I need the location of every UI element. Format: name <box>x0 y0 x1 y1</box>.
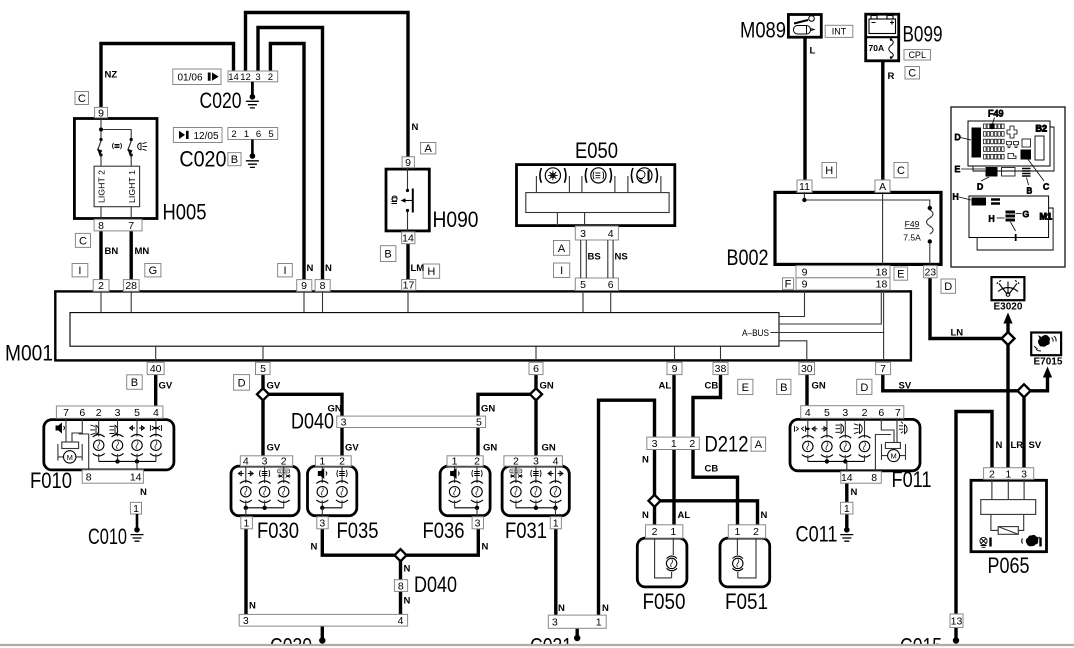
svg-text:2: 2 <box>753 526 759 538</box>
svg-text:LN: LN <box>951 328 964 339</box>
svg-text:1: 1 <box>844 503 850 515</box>
node letter G <box>145 264 161 278</box>
pin 13 P065 to C015 <box>950 614 963 628</box>
F035 lamps <box>321 466 323 483</box>
svg-text:5: 5 <box>134 407 140 419</box>
B099 fuse symbol <box>889 40 894 59</box>
pins 2 1 F050 <box>646 525 683 538</box>
key switch M089 <box>788 15 821 38</box>
svg-text:C020: C020 <box>179 147 226 172</box>
pin A B002 <box>875 180 890 193</box>
svg-text:5: 5 <box>268 129 273 140</box>
junction diamond node N lamps <box>395 549 407 561</box>
wire NZ H005.9 to C020.14 <box>101 44 234 109</box>
svg-text:D: D <box>977 182 983 192</box>
svg-text:H: H <box>825 165 833 177</box>
svg-text:1: 1 <box>133 503 139 515</box>
node letter A H090 <box>421 143 436 156</box>
wire LR node to P065.1 <box>1006 345 1009 469</box>
bottom pane divider <box>0 646 1074 648</box>
pin 6 M001 <box>529 362 543 375</box>
wire GN node to F031.3 <box>534 400 537 457</box>
pin 9 M001 bottom <box>667 362 682 375</box>
wire N F011.14 to C011 <box>845 483 848 503</box>
junction diamond node GV <box>257 388 269 400</box>
inset highlighted fuse F49 <box>991 124 994 129</box>
node letter E B002 <box>894 267 908 281</box>
svg-text:6: 6 <box>878 407 884 419</box>
svg-text:6: 6 <box>79 407 85 419</box>
node letter I E050 <box>554 263 570 278</box>
svg-text:7: 7 <box>880 363 886 375</box>
svg-text:2: 2 <box>281 456 287 468</box>
svg-text:4: 4 <box>243 456 249 468</box>
node letter C H005 lower <box>75 233 90 247</box>
svg-text:3: 3 <box>652 438 658 450</box>
svg-text:3: 3 <box>262 456 268 468</box>
E050 stalk unit internals <box>545 168 560 183</box>
svg-text:A–BUS: A–BUS <box>742 328 769 338</box>
node letter B M001 40 <box>127 375 143 390</box>
svg-text:6: 6 <box>608 279 614 291</box>
svg-text:12: 12 <box>240 72 251 83</box>
svg-text:3: 3 <box>552 617 558 629</box>
svg-text:1: 1 <box>244 129 249 140</box>
lamp unit F035 <box>308 466 357 516</box>
svg-text:N: N <box>412 122 419 133</box>
svg-text:6: 6 <box>256 129 261 140</box>
svg-text:5: 5 <box>260 363 266 375</box>
svg-text:14: 14 <box>402 233 414 245</box>
svg-text:I: I <box>78 265 81 277</box>
svg-text:3: 3 <box>115 407 121 419</box>
pins 1 2 F035 <box>315 456 351 468</box>
connector D212 pins 3 1 2 <box>647 437 700 450</box>
wire AL M001.9 to D212.1 to F050.1 <box>672 375 675 527</box>
svg-text:P065: P065 <box>988 553 1030 578</box>
svg-text:M001: M001 <box>5 341 53 366</box>
pin 38 M001 <box>713 362 728 375</box>
svg-text:F49: F49 <box>905 219 920 229</box>
svg-text:F036: F036 <box>423 518 465 543</box>
wire MN H005.7 to M001.28 <box>129 231 132 280</box>
pins 2 3 4 F031 <box>504 456 563 468</box>
svg-text:3: 3 <box>341 417 347 429</box>
svg-text:E: E <box>955 164 961 174</box>
svg-text:INT: INT <box>832 27 847 37</box>
svg-text:N: N <box>325 263 332 274</box>
wire GV M001.40 to F010.4 <box>154 375 157 408</box>
H005 switch 2 (LIGHT 1) <box>130 138 133 141</box>
connector C030 pins 3 4 <box>239 614 407 627</box>
pin 5 M001 <box>256 362 271 375</box>
F031 lamps <box>515 466 517 483</box>
H090 push switch <box>407 168 409 232</box>
svg-text:9: 9 <box>98 107 104 119</box>
ground C010 <box>136 514 139 530</box>
svg-text:17: 17 <box>403 280 415 292</box>
node letter A D212 <box>751 437 766 451</box>
svg-text:MN: MN <box>135 246 150 257</box>
wire SV node to E7015 <box>1030 378 1048 391</box>
pins 1 2 F051 <box>728 525 765 538</box>
svg-text:8: 8 <box>86 471 92 483</box>
horn E7015 icon box <box>1031 333 1061 356</box>
svg-text:2: 2 <box>989 468 995 480</box>
svg-text:GN: GN <box>328 404 342 415</box>
wire GN node to D040.3 <box>269 394 342 417</box>
ground C011 <box>845 528 848 531</box>
svg-text:SV: SV <box>899 381 912 392</box>
svg-text:C020: C020 <box>200 88 242 113</box>
svg-text:E050: E050 <box>575 138 618 163</box>
svg-text:SV: SV <box>1029 440 1042 451</box>
svg-text:7: 7 <box>63 407 69 419</box>
svg-text:GN: GN <box>812 381 826 392</box>
svg-text:F030: F030 <box>257 518 299 543</box>
pin 1 F030 <box>241 517 253 530</box>
wire N node to F050.2 <box>653 506 656 526</box>
pins 14 8 F011 <box>841 471 882 484</box>
svg-text:3: 3 <box>243 615 249 627</box>
node letter B H090 <box>380 246 396 262</box>
svg-text:M089: M089 <box>740 18 786 43</box>
connector D040 pins 3 5 <box>337 416 486 429</box>
svg-text:1: 1 <box>734 526 740 538</box>
battery B099 <box>866 14 899 61</box>
M001 bottom pin stubs <box>155 346 157 360</box>
pins 4 3 2 F030 <box>240 456 292 468</box>
wire N F036.3 to node <box>406 529 478 556</box>
svg-text:N: N <box>761 510 768 521</box>
svg-text:F: F <box>785 279 792 291</box>
svg-text:AL: AL <box>659 381 672 392</box>
wire N F030.1 to C030.3 <box>244 529 247 616</box>
lamp unit F030 <box>231 466 299 516</box>
wire SV node to P065.3 <box>1022 397 1025 469</box>
svg-text:LIGHT 2: LIGHT 2 <box>98 169 107 203</box>
svg-text:H: H <box>427 266 435 278</box>
node letter A E050 <box>554 241 570 256</box>
wire GN node to D040.5 <box>478 394 530 417</box>
svg-text:1: 1 <box>670 526 676 538</box>
wire C030 stub <box>321 626 324 640</box>
svg-text:C: C <box>1043 182 1049 192</box>
wire BN H005.8 to M001.2 <box>99 231 102 280</box>
svg-text:D: D <box>238 377 246 389</box>
pin 3 F035 <box>317 517 328 530</box>
svg-text:01/06: 01/06 <box>177 73 202 84</box>
svg-text:M: M <box>890 451 896 460</box>
body computer M001 inner <box>70 313 779 347</box>
svg-text:B: B <box>384 249 391 261</box>
wire N C020.3 to M001.8 <box>258 28 323 281</box>
svg-text:3: 3 <box>255 72 260 83</box>
lamp unit F031 <box>502 466 569 516</box>
svg-text:4: 4 <box>805 407 811 419</box>
svg-text:E3020: E3020 <box>994 302 1023 313</box>
wire GV M001.5 to node <box>261 375 264 389</box>
svg-text:70A: 70A <box>869 43 885 53</box>
node letter D M001 5 <box>234 375 250 391</box>
F051 lamp <box>737 538 756 578</box>
pins 1 2 F036 <box>447 456 483 468</box>
svg-text:F050: F050 <box>643 589 686 614</box>
wire N D212.3 to node <box>653 449 656 495</box>
B002 internal bus and fuse F49 <box>804 192 929 206</box>
date tag 01/06 <box>173 69 221 85</box>
svg-text:9: 9 <box>802 279 808 291</box>
fog lamp F051 <box>720 538 770 587</box>
svg-text:A: A <box>755 439 763 451</box>
P065 horn icon <box>1022 535 1041 546</box>
P065 bulb icon <box>980 537 991 547</box>
date tag 12/05 <box>173 128 222 143</box>
svg-text:3: 3 <box>533 456 539 468</box>
pin 23 B002 <box>924 266 937 279</box>
wire N node to F051.2 <box>660 501 758 526</box>
svg-text:L: L <box>810 46 816 57</box>
svg-text:2: 2 <box>231 129 236 140</box>
wire N C015 to P065.2 <box>956 412 992 640</box>
svg-text:N: N <box>558 603 565 614</box>
node letter H H090 <box>423 264 440 278</box>
node letter C B099 <box>905 67 920 80</box>
inset fuse panel B2 <box>968 121 1050 166</box>
B099 battery icon <box>869 16 896 34</box>
svg-text:12/05: 12/05 <box>193 131 218 142</box>
node letter H B002 <box>822 163 837 178</box>
svg-text:1: 1 <box>671 438 677 450</box>
svg-text:M1: M1 <box>1040 212 1053 222</box>
pin 2 M001 <box>93 280 109 293</box>
connector C031 pins 3 1 <box>548 615 606 628</box>
svg-text:18: 18 <box>876 279 888 291</box>
svg-text:H090: H090 <box>433 207 479 232</box>
F010 lamps and motor <box>98 418 100 436</box>
svg-text:4: 4 <box>553 456 559 468</box>
svg-text:N: N <box>851 487 858 498</box>
svg-text:3: 3 <box>580 228 586 240</box>
svg-text:N: N <box>311 542 318 553</box>
svg-text:4: 4 <box>608 228 614 240</box>
svg-text:G: G <box>149 265 158 277</box>
svg-text:GV: GV <box>267 443 281 454</box>
inset fuse grid <box>984 124 987 129</box>
lamp unit F011 <box>790 419 920 470</box>
svg-text:2: 2 <box>98 280 104 292</box>
svg-text:I: I <box>560 265 563 277</box>
svg-text:LIGHT 1: LIGHT 1 <box>128 169 137 203</box>
node letter F B002 <box>783 278 794 291</box>
svg-text:3: 3 <box>842 407 848 419</box>
svg-text:D: D <box>944 281 952 293</box>
pin 40 M001 <box>147 362 164 375</box>
svg-text:R: R <box>888 71 895 82</box>
connector dot C015 <box>953 637 959 643</box>
arrowhead to E7015 <box>1043 367 1052 378</box>
svg-text:2: 2 <box>268 72 273 83</box>
M089 ignition key icon <box>794 16 815 34</box>
wire N C020.2 to M001.9 <box>270 44 304 281</box>
pin 1 F010 ground <box>130 502 141 515</box>
wire GV node to F030.3 <box>261 400 264 457</box>
svg-text:C010: C010 <box>88 524 127 549</box>
svg-text:N: N <box>249 601 256 612</box>
svg-text:F051: F051 <box>725 589 768 614</box>
pin 11 B002 <box>797 180 812 193</box>
wire R B099 to B002.A <box>881 61 884 181</box>
E050 lamp icon <box>637 171 649 182</box>
svg-text:B: B <box>131 377 138 389</box>
inset connector D black <box>972 128 981 157</box>
svg-text:C011: C011 <box>796 522 838 547</box>
svg-text:28: 28 <box>125 280 137 292</box>
svg-text:B: B <box>231 154 238 166</box>
connector C020 pins 14 12 3 2 <box>228 71 278 83</box>
H005 internal contact wiring <box>101 118 131 138</box>
M001 A-BUS lines <box>779 290 881 324</box>
svg-text:C: C <box>897 165 905 177</box>
svg-text:BS: BS <box>588 252 601 263</box>
pins 8 7 H005 <box>94 219 142 232</box>
svg-text:5: 5 <box>476 417 482 429</box>
svg-text:2: 2 <box>862 407 868 419</box>
wire E7015 arrow shaft <box>1046 374 1049 378</box>
svg-text:1: 1 <box>596 617 602 629</box>
svg-text:D: D <box>955 132 961 142</box>
svg-text:GN: GN <box>481 404 495 415</box>
svg-text:GN: GN <box>483 443 497 454</box>
svg-text:F010: F010 <box>30 468 72 493</box>
node letter D B002 <box>941 279 956 293</box>
junction diamond node LN <box>1002 332 1015 345</box>
svg-text:18: 18 <box>876 267 888 279</box>
svg-text:BN: BN <box>105 246 119 257</box>
wire LN B002.23 to node <box>930 278 1002 339</box>
wire N F031.1 to C031.3 <box>554 529 557 617</box>
pins 8 14 F010 <box>82 470 143 483</box>
P065 relay internals <box>992 479 1024 499</box>
svg-text:1: 1 <box>243 518 249 530</box>
svg-text:1: 1 <box>1005 468 1011 480</box>
svg-text:5: 5 <box>580 279 586 291</box>
svg-text:8: 8 <box>398 580 404 592</box>
svg-text:5: 5 <box>824 407 830 419</box>
svg-text:C: C <box>908 68 916 80</box>
connector dot C031 <box>574 635 580 641</box>
svg-text:13: 13 <box>951 616 963 628</box>
pin 8 M001 top <box>315 280 330 293</box>
pin 14 H090 <box>402 232 415 245</box>
svg-text:1: 1 <box>319 456 325 468</box>
svg-text:2: 2 <box>339 456 345 468</box>
svg-text:7: 7 <box>128 220 134 232</box>
svg-text:N: N <box>307 263 314 274</box>
svg-text:9: 9 <box>802 267 808 279</box>
wire GN D040.5 to F036.2 <box>476 427 479 457</box>
pin 28 M001 <box>123 280 139 293</box>
svg-text:40: 40 <box>150 363 162 375</box>
wire C031 stub <box>576 628 579 638</box>
wire CB M001.38 to D212.2 <box>693 375 721 439</box>
node letter B M001 30 <box>777 379 791 394</box>
svg-text:N: N <box>642 510 649 521</box>
svg-text:H: H <box>953 192 959 202</box>
svg-text:C: C <box>79 235 87 247</box>
E050 fog icon <box>548 171 558 181</box>
svg-text:2: 2 <box>689 438 695 450</box>
pins 3 4 E050 <box>575 226 618 240</box>
svg-text:B002: B002 <box>727 245 769 270</box>
svg-text:GN: GN <box>542 443 556 454</box>
pins 4 5 3 2 6 7 F011 <box>801 406 904 419</box>
svg-text:N: N <box>140 487 147 498</box>
svg-text:H005: H005 <box>163 200 207 225</box>
svg-text:3: 3 <box>319 518 325 530</box>
pins 5 6 M001 top <box>575 278 618 291</box>
body computer M001 outer <box>55 291 911 360</box>
pin 9 H090 <box>402 157 414 169</box>
fuse location inset outer box <box>951 107 1065 267</box>
svg-text:2: 2 <box>513 456 519 468</box>
H005 lamp icon <box>138 142 147 150</box>
wire L M089 to B002.11 <box>803 38 806 182</box>
svg-text:14: 14 <box>841 472 853 484</box>
wire SV M001.7 to node <box>883 375 1018 391</box>
svg-text:F011: F011 <box>892 467 932 492</box>
svg-text:CB: CB <box>705 464 719 475</box>
svg-text:B: B <box>780 382 787 394</box>
pin 1 F031 <box>550 517 561 530</box>
node letter INT M089 <box>825 25 853 37</box>
M001 stub pin 9 connector F <box>779 290 805 317</box>
svg-text:CB: CB <box>705 381 719 392</box>
pin 30 M001 <box>799 362 815 375</box>
svg-text:STOP: STOP <box>279 469 289 473</box>
ground C020b <box>251 140 254 157</box>
lamp unit F036 <box>440 466 490 516</box>
svg-text:8: 8 <box>871 472 877 484</box>
svg-text:7.5A: 7.5A <box>903 233 921 243</box>
svg-text:E: E <box>742 382 749 394</box>
svg-text:CPL: CPL <box>908 50 926 60</box>
svg-text:4: 4 <box>398 615 404 627</box>
svg-text:STOP: STOP <box>511 469 521 473</box>
svg-text:1: 1 <box>452 456 458 468</box>
svg-text:I: I <box>283 265 286 277</box>
svg-text:F035: F035 <box>337 518 379 543</box>
svg-text:GV: GV <box>345 443 359 454</box>
node letter E M001 38 <box>738 379 753 394</box>
node letter I left <box>72 264 88 278</box>
svg-text:NS: NS <box>615 252 628 263</box>
node letter D M001 7 <box>857 379 872 394</box>
pin 8 D040 <box>394 580 407 593</box>
H005 switch 1 (LIGHT 2) <box>99 138 102 141</box>
svg-text:2: 2 <box>474 456 480 468</box>
E050 twisted pair BS NS <box>581 240 613 278</box>
svg-text:N: N <box>482 542 489 553</box>
svg-text:9: 9 <box>672 363 678 375</box>
wire E3020 arrow shaft <box>1006 320 1009 333</box>
F050 lamp <box>655 538 674 578</box>
E050 beam icon <box>593 172 604 180</box>
wire N F035.3 to node <box>322 529 395 556</box>
svg-text:F031: F031 <box>505 518 547 543</box>
svg-text:D040: D040 <box>414 572 457 597</box>
svg-text:N: N <box>404 596 411 607</box>
